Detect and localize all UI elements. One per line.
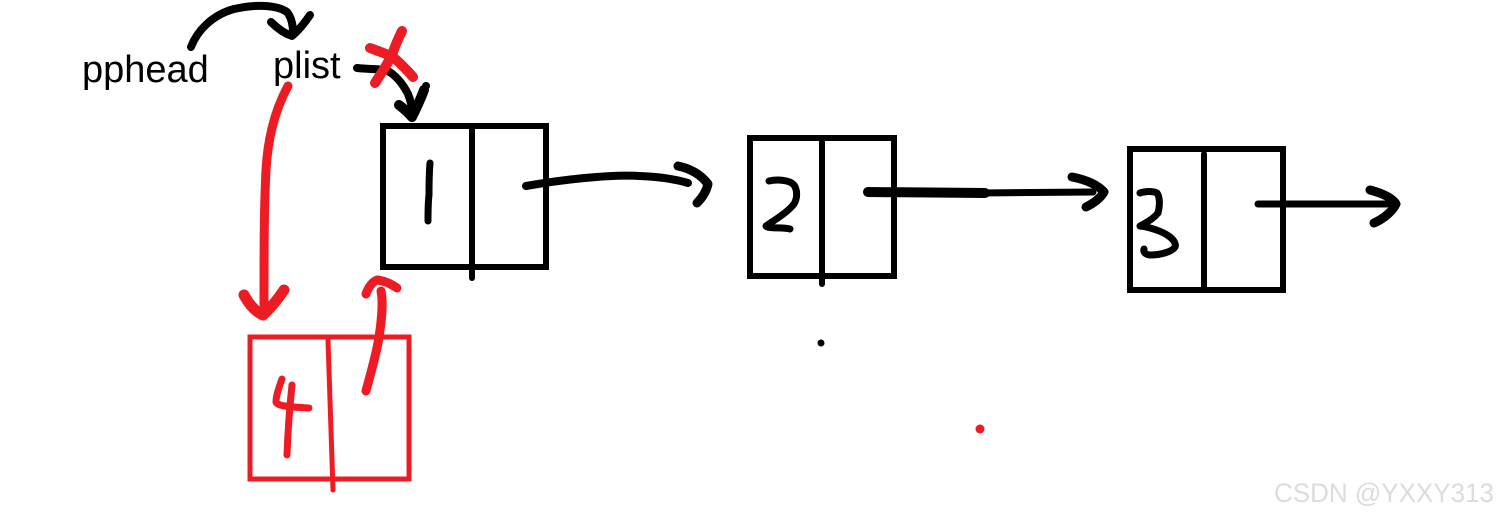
red arrow node 4 up to node 1: [366, 280, 397, 391]
arrow pphead to plist: [191, 6, 310, 47]
node 1 box: [383, 126, 546, 267]
value 3: [1140, 192, 1175, 256]
node 1 divider: [469, 127, 475, 278]
svg-text:pphead: pphead: [82, 49, 209, 91]
svg-text:CSDN @YXXY313: CSDN @YXXY313: [1274, 478, 1494, 508]
node 2 box: [750, 138, 894, 276]
arrow node 1 to node 2: [526, 166, 708, 203]
stray red dot: [976, 425, 985, 434]
svg-text:plist: plist: [273, 45, 341, 87]
node 3 divider: [1201, 154, 1207, 289]
pointer arrow plist to node 1: [357, 68, 430, 117]
stray black dot: [818, 340, 825, 347]
red X cross-out: [370, 31, 413, 83]
arrow node 3 out: [1258, 190, 1396, 223]
node 3 box: [1130, 149, 1283, 290]
node 2 divider: [819, 139, 825, 284]
value 4: [276, 379, 309, 455]
value 2: [766, 180, 797, 229]
node 4 box (red): [250, 337, 409, 479]
red arrow plist down to node 4: [244, 86, 288, 315]
arrow node 2 to node 3: [868, 177, 1104, 207]
node 4 divider: [328, 340, 333, 490]
value 1: [428, 163, 430, 221]
